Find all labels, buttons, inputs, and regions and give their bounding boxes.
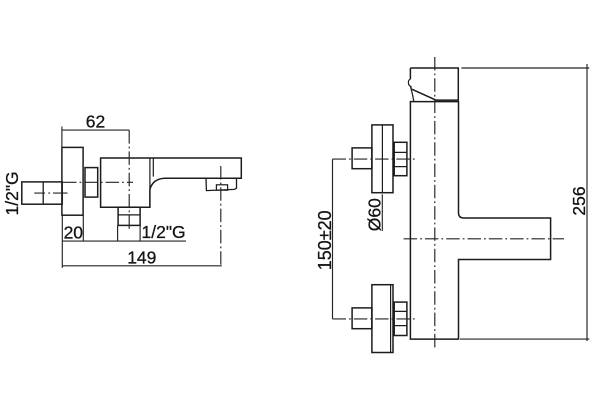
right view: top union pipe stub — [352, 148, 372, 169]
dim 150±20: dimension line — [332, 159, 334, 319]
right view: bottom union centerline — [333, 318, 416, 320]
right view: handle front edge — [411, 89, 414, 102]
right view: lever handle — [410, 68, 458, 100]
right view: top union hex nut — [394, 142, 407, 175]
left view: aerator housing under spout — [206, 178, 237, 190]
left view: spout axis centerline — [63, 181, 133, 183]
dim 20: extension lines — [62, 215, 83, 241]
right view: bottom disc inner line — [390, 285, 392, 353]
right view: body rim line — [436, 99, 459, 101]
left view: body inner edge line B — [152, 158, 154, 177]
right view: top union centerline — [333, 158, 416, 160]
right view: body column and spout outline — [410, 102, 550, 340]
right view: bottom union hex nut — [394, 302, 407, 335]
text labels left view — [2, 112, 186, 268]
svg-text:1/2"G: 1/2"G — [142, 222, 186, 242]
svg-text:256: 256 — [569, 186, 589, 215]
left view: outlet pipe 1/2"G below body — [118, 207, 140, 225]
dim 256: top extension line — [461, 67, 589, 69]
svg-text:20: 20 — [64, 223, 84, 243]
left view: inlet pipe 1/2"G — [22, 182, 62, 204]
right view: top disc inner line — [381, 125, 383, 193]
left view: body inner edge line A — [149, 158, 151, 207]
text labels right view — [315, 186, 589, 270]
dim 62: extension line left — [61, 127, 63, 148]
label phi60 leader line — [381, 194, 383, 231]
svg-text:149: 149 — [127, 247, 156, 267]
outlet thread extension lines — [118, 225, 141, 241]
left view: aerator outlet inner rect — [216, 185, 227, 190]
dim 62: dimension line — [62, 129, 129, 131]
right view: handle left bump arc — [408, 79, 410, 86]
svg-text:1/2"G: 1/2"G — [2, 171, 22, 215]
right view: body vertical centerline — [434, 57, 436, 349]
right view: top union flange disc phi60 — [372, 125, 393, 193]
dim 149: left extension — [61, 241, 63, 268]
svg-text:150±20: 150±20 — [315, 210, 335, 270]
left view: inlet centerline — [34, 192, 67, 194]
left view: cartridge vertical centerline (right ext of dim 62) — [128, 130, 130, 229]
dim 20 / label 1/2G leader line — [62, 240, 186, 242]
left view: adapter bush between flange and body — [85, 168, 98, 198]
left view: aerator vertical centerline / right ext of dim 149 — [220, 166, 222, 268]
dim 149: dimension line — [62, 265, 222, 267]
left view: mixer body and spout outline — [101, 158, 242, 207]
right view: bottom union flange disc phi60 — [372, 285, 393, 353]
right view: spout horizontal centerline — [404, 238, 564, 240]
svg-text:Ø60: Ø60 — [365, 198, 385, 231]
left view: wall flange plate — [62, 147, 83, 215]
right view: bottom union pipe stub — [352, 308, 372, 329]
left view: outlet pipe thread step — [118, 214, 140, 216]
left view: inlet pipe step line — [42, 183, 44, 204]
svg-text:62: 62 — [86, 112, 105, 132]
dim 256: dimension line — [586, 64, 588, 341]
dim 256: bottom extension line — [460, 338, 589, 340]
